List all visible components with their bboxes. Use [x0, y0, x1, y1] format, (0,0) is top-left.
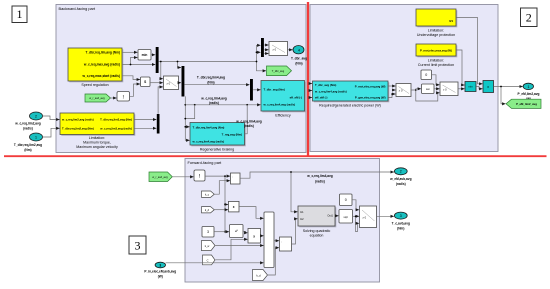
node label: w_c,req,lim4,avg (forward): [306, 174, 333, 183]
svg-text:x: x: [253, 235, 255, 239]
subsystem area: right part (electric power limitation): [310, 5, 498, 152]
svg-text:Backward-facing part: Backward-facing part: [59, 6, 96, 11]
wire: req power out2 branches to switch R1: [388, 90, 395, 98]
svg-text:(rad/s): (rad/s): [209, 101, 219, 105]
svg-text:P_gen,elec,req,avg (W): P_gen,elec,req,avg (W): [355, 96, 386, 100]
svg-text:k_w: k_w: [205, 244, 210, 248]
inport oval 1: T_dbr,req,lim2,avg: [14, 133, 43, 152]
min block (teal): [465, 82, 476, 92]
svg-text:u²: u²: [235, 229, 238, 233]
wire: C to F8 in2: [215, 239, 247, 259]
wire: sqrt to switch F with bypass loop: [353, 216, 359, 232]
svg-text:w_r_avd_avg: w_r_avd_avg: [152, 175, 168, 179]
svg-text:k_d: k_d: [205, 208, 210, 212]
svg-text:Limitation:: Limitation:: [89, 136, 105, 140]
red divider line horizontal: [4, 155, 547, 157]
svg-text:T_dbr,req,lim2,avg: T_dbr,req,lim2,avg: [14, 143, 42, 147]
wire: tag to abs (forward): [172, 176, 193, 178]
wire: inport1 to limitation in2: [43, 128, 60, 137]
wire: quad Out1 to sqrt: [335, 215, 338, 217]
svg-text:≥ 0: ≥ 0: [167, 81, 171, 85]
mux bar 1: [156, 47, 159, 73]
svg-text:2: 2: [526, 11, 532, 25]
svg-text:Current limit protection: Current limit protection: [418, 63, 454, 67]
subsystem block: Required/generated electric power: [313, 81, 390, 108]
svg-text:Forward-facing part: Forward-facing part: [188, 160, 223, 165]
svg-text:w_c,req,lim3,avg (rad/s): w_c,req,lim3,avg (rad/s): [99, 126, 132, 130]
svg-text:3: 3: [400, 214, 402, 218]
wire: S out to switch in2: [150, 82, 163, 84]
subsystem block: Limitation Undervoltage protection: [416, 9, 457, 37]
wire: u^2 to F8: [243, 231, 247, 233]
svg-text:(Nm): (Nm): [295, 62, 302, 66]
wire: tall mux to F11: [274, 240, 279, 242]
math block sqrt: [339, 210, 353, 224]
from tag: C: [203, 255, 216, 265]
switch block R2: [440, 82, 458, 96]
wire: product to outport and goto tag: [494, 86, 523, 104]
svg-text:x: x: [487, 85, 489, 89]
wire: P_in inport to tall mux: [166, 262, 264, 264]
svg-text:(rad/s): (rad/s): [244, 124, 254, 128]
svg-text:(Nm): (Nm): [207, 80, 214, 84]
mux bar block F9 (tall): [264, 212, 274, 268]
svg-text:w_c,req,max,avg (rad/s): w_c,req,max,avg (rad/s): [83, 63, 120, 67]
svg-text:4: 4: [298, 48, 300, 52]
svg-text:3: 3: [207, 230, 209, 234]
svg-text:≥ 0: ≥ 0: [363, 215, 367, 219]
svg-text:≥ 0: ≥ 0: [273, 47, 277, 51]
svg-text:w_c,req,lim2,avg: w_c,req,lim2,avg: [14, 122, 41, 126]
wires: limitation outs to bar3: [134, 120, 156, 129]
wire: branch down from w bus: [184, 105, 194, 120]
svg-text:(W): (W): [158, 275, 163, 279]
svg-text:T_dbr,req,lim4,avg: T_dbr,req,lim4,avg: [197, 75, 225, 79]
wires: input stubs to required power block: [309, 84, 312, 98]
svg-text:w_eM,avb,avg: w_eM,avb,avg: [389, 177, 411, 181]
svg-text:T_dbr,req,lim2,avg (Nm): T_dbr,req,lim2,avg (Nm): [62, 126, 94, 130]
subsystem area: Backward-facing part: [56, 5, 306, 153]
wire: 0 const to switch R2: [432, 75, 440, 85]
inport oval: P_in,elec,eM,avb,avg: [144, 262, 176, 279]
subsystem block: Limitation max torque/velocity: [60, 113, 135, 149]
subsystem area: Forward-facing part: [185, 159, 380, 283]
inport oval 2: w_c,req,lim2,avg: [14, 112, 42, 131]
mux block F2: [231, 173, 241, 184]
wire: speed reg out1 to min: [122, 51, 137, 53]
subsystem block: Speed regulation: [68, 48, 123, 87]
wire: min to product: [476, 87, 482, 89]
svg-text:1: 1: [35, 136, 37, 140]
wire: req power out1 to switch R1: [388, 85, 395, 87]
svg-text:w_c,req,lim4,avg: w_c,req,lim4,avg: [200, 96, 227, 100]
red divider line vertical: [307, 2, 309, 156]
svg-text:T_dbr,req,lim4,avg (Nm): T_dbr,req,lim4,avg (Nm): [193, 126, 225, 130]
svg-text:2: 2: [400, 170, 402, 174]
svg-text:≥ 0: ≥ 0: [399, 89, 403, 93]
block: S (subtract): [141, 77, 151, 87]
svg-text:T_dbr,req,lim3,avg (Nm): T_dbr,req,lim3,avg (Nm): [100, 118, 132, 122]
svg-text:w_c,req,max,start (rad/s): w_c,req,max,start (rad/s): [81, 74, 120, 78]
wire: long bus from bar1 to bar4: [159, 45, 266, 78]
svg-text:w_c,req,lim4,avg: w_c,req,lim4,avg: [306, 174, 333, 178]
svg-text:(rad/s): (rad/s): [23, 127, 33, 131]
from tag: k_w: [202, 241, 216, 251]
svg-text:In2: In2: [300, 217, 304, 221]
svg-text:T_dbr_avg: T_dbr_avg: [291, 57, 307, 61]
wires: bar4 to switch stubs: [264, 45, 268, 54]
svg-text:(rad/s): (rad/s): [315, 179, 325, 183]
svg-text:Speed regulation: Speed regulation: [81, 83, 108, 87]
wire: switch to oval4: [288, 49, 293, 51]
wire: vertical feed to regenerative braking: [184, 96, 189, 140]
svg-text:0/1: 0/1: [449, 19, 453, 23]
wire: bar3 up to switch in3: [158, 87, 163, 114]
svg-text:Maximum angular velocity: Maximum angular velocity: [76, 145, 118, 149]
subsystem block: Regenerative braking: [190, 123, 246, 152]
svg-text:0: 0: [345, 198, 347, 202]
svg-text:P_in,elec,eM,avb,avg: P_in,elec,eM,avb,avg: [144, 270, 176, 274]
svg-text:x: x: [233, 205, 235, 209]
from tag: w_r_avd_avg (forward): [149, 172, 172, 182]
product block (teal): [483, 81, 494, 93]
switch block R1: [396, 84, 411, 97]
wire: saturation to switch R2: [434, 88, 439, 90]
block: abs: [117, 92, 130, 102]
switch block F: [360, 206, 377, 228]
from tag: k_d (bottom): [253, 270, 268, 281]
callout box 1: [12, 6, 27, 23]
svg-text:P_eM_lim2_avg: P_eM_lim2_avg: [516, 102, 537, 106]
from tag: k_d: [202, 207, 215, 213]
svg-text:In1: In1: [300, 210, 304, 214]
from tag: k_c: [202, 191, 215, 197]
wire: w_r_avd tag to abs: [111, 97, 117, 99]
svg-text:Efficiency: Efficiency: [275, 113, 291, 117]
wire: speed reg out2 to bar1 with branch to min in2: [122, 58, 155, 66]
wire: min to bar1: [151, 54, 155, 56]
goto tag: P_eM_lim2_avg: [506, 99, 541, 108]
wire: 0F to switch F: [352, 200, 359, 210]
svg-text:T_dbr_avg (Nm): T_dbr_avg (Nm): [315, 83, 336, 87]
svg-text:1: 1: [17, 7, 23, 21]
svg-text:Undervoltage protection: Undervoltage protection: [417, 33, 455, 37]
svg-text:(Nm): (Nm): [397, 227, 404, 231]
svg-text:T_dbr_avg (Nm): T_dbr_avg (Nm): [264, 88, 285, 92]
svg-text:w_r_avd_avg: w_r_avd_avg: [89, 96, 105, 100]
constant block 0 (right): [421, 70, 432, 80]
from tag: w_r_avd_avg: [85, 94, 111, 102]
svg-text:!: !: [123, 95, 124, 101]
svg-text:Required/generated electric po: Required/generated electric power (W): [319, 104, 381, 108]
wire: k_d to product F3: [214, 209, 228, 211]
svg-text:P_mot,elec,req,avg (W): P_mot,elec,req,avg (W): [355, 84, 386, 88]
svg-text:Solving quadratic: Solving quadratic: [303, 229, 331, 233]
mux bar 4: [261, 38, 264, 57]
svg-text:3: 3: [135, 239, 141, 253]
product block F3: [229, 201, 240, 212]
subsystem block: Solving quadratic equation: [298, 206, 336, 237]
svg-text:w_c,req,lim4,avg (rad/s): w_c,req,lim4,avg (rad/s): [192, 139, 225, 143]
wire: F8 to tall mux: [261, 235, 264, 237]
svg-text:w_c,req,lim4,avg: w_c,req,lim4,avg: [235, 119, 262, 123]
wire: bar5 to efficiency in1: [253, 89, 260, 91]
svg-text:S: S: [144, 80, 146, 84]
svg-text:C: C: [207, 259, 209, 263]
svg-text:Limitation:: Limitation:: [428, 58, 444, 62]
switch block (top output): [269, 42, 288, 56]
constant block 3: [202, 227, 214, 238]
svg-text:1: 1: [528, 85, 530, 89]
svg-text:(rad/s): (rad/s): [396, 182, 406, 186]
svg-text:equation: equation: [310, 233, 324, 237]
callout box 2: [521, 8, 538, 27]
node label: w_c,req,lim4,avg: [200, 96, 227, 105]
constant block 0 (forward): [340, 194, 353, 206]
saturation block: [422, 84, 435, 94]
mux bar 2: [182, 66, 185, 97]
outport oval 1: P_eM,lim2,avg: [518, 83, 540, 101]
svg-text:w_c,req,lim2,avg (rad/s): w_c,req,lim2,avg (rad/s): [61, 118, 94, 122]
svg-text:T_reg,avg (Nm): T_reg,avg (Nm): [222, 133, 242, 137]
node label: w_c,req,lim4,avg above regen: [235, 119, 262, 128]
svg-text:Maximum torque,: Maximum torque,: [83, 141, 111, 145]
wire: T_dbr,req,lim4 bus to bar5: [184, 84, 249, 86]
wire: switch F to T outport: [377, 215, 394, 217]
wire: switch R2 to min: [458, 88, 464, 90]
svg-text:3: 3: [159, 263, 161, 267]
wire: current limit block to min: [456, 50, 464, 85]
mux bar 5: [250, 79, 253, 101]
svg-text:T_dbr_avg: T_dbr_avg: [272, 69, 285, 73]
svg-text:eff_eM (-): eff_eM (-): [315, 96, 327, 100]
wire: F2 out to w output and quad In1: [240, 171, 394, 212]
callout box 3: [129, 236, 146, 254]
subsystem block: Efficiency: [261, 81, 306, 118]
svg-text:min: min: [468, 85, 473, 89]
mux block F11: [280, 237, 292, 251]
svg-text:0: 0: [425, 73, 427, 77]
mux bar 3: [157, 114, 160, 134]
svg-text:P_eM,lim2,avg: P_eM,lim2,avg: [518, 92, 540, 96]
wire: abs to S in2: [130, 84, 141, 96]
svg-text:(Nm): (Nm): [24, 148, 31, 152]
wire: inport2 to limitation in1: [43, 116, 60, 120]
outport oval: w_eM,avb,avg: [389, 168, 411, 186]
subsystem block: Limitation Current limit protection: [416, 44, 457, 67]
svg-text:Limitation:: Limitation:: [428, 28, 444, 32]
svg-text:w_c,req,lim4,avg (rad/s): w_c,req,lim4,avg (rad/s): [263, 103, 296, 107]
outport oval: T_c,avb,avg: [392, 212, 410, 231]
svg-text:w_c,req,lim4,avg (rad/s): w_c,req,lim4,avg (rad/s): [314, 90, 347, 94]
wire: k_w to tall mux: [215, 245, 263, 247]
svg-text:≥ 0: ≥ 0: [443, 87, 447, 91]
wire: regen braking out up to w bus: [245, 105, 247, 134]
svg-text:sat: sat: [426, 87, 430, 91]
goto tag: T_dbr_avg: [267, 66, 292, 76]
svg-text:Regenerative braking: Regenerative braking: [200, 147, 234, 151]
svg-text:T_c,avb,avg: T_c,avb,avg: [392, 222, 410, 226]
product block F8: [248, 229, 261, 244]
switch block (left): [164, 76, 179, 90]
svg-text:Out1: Out1: [327, 214, 333, 218]
wire: speed reg out3 to S in1: [122, 76, 140, 80]
wire: F3 out down to tall mux: [239, 207, 263, 219]
block: abs (forward): [194, 170, 205, 181]
node label: T_dbr,req,lim4,avg: [197, 75, 225, 84]
svg-text:sqrt: sqrt: [344, 215, 349, 219]
svg-text:k_c: k_c: [205, 192, 210, 196]
wire: 3 to u^2: [214, 231, 229, 233]
wire: switch out to bar2: [179, 82, 182, 84]
svg-text:P_mot,elec,max,avg (W): P_mot,elec,max,avg (W): [420, 48, 452, 52]
wire: abs out to mux F2 and vertical chain: [205, 175, 230, 232]
wire: switch R1 out to saturation with bypass loop: [411, 89, 439, 101]
block: min: [138, 50, 151, 61]
wire: w_c,req,lim4 bus to efficiency: [185, 104, 260, 106]
wire: F11 to quad In2: [292, 219, 298, 244]
outport oval 4: T_dbr_avg: [291, 46, 307, 66]
svg-text:eff_eM (-): eff_eM (-): [290, 95, 302, 99]
svg-text:k_d: k_d: [256, 274, 261, 278]
svg-text:2: 2: [35, 115, 37, 119]
svg-text:min: min: [142, 53, 148, 57]
wire: k_c to mux F2 in2: [214, 181, 230, 195]
wire: undervoltage block to product: [456, 18, 482, 84]
wire: k_d bottom to F11: [268, 248, 279, 275]
math block u^2: [230, 225, 244, 238]
svg-text:T_dbr,req,lim,avg (Nm): T_dbr,req,lim,avg (Nm): [85, 51, 120, 55]
